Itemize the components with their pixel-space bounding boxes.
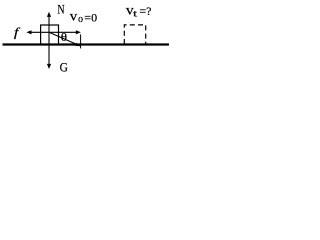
arrowhead diagonal (down-right): [75, 43, 81, 47]
svg-text:θ: θ: [61, 31, 67, 44]
arrowhead f (left): [26, 30, 31, 34]
ground line: [3, 43, 170, 45]
wire: vertical force line through block (N up / G down): [48, 16, 50, 64]
arrowhead G (down): [47, 64, 51, 69]
svg-text:G: G: [60, 60, 68, 74]
block (square on ground): [41, 25, 59, 44]
svg-text:=?: =?: [139, 4, 151, 18]
svg-text:N: N: [57, 4, 64, 17]
svg-text:v: v: [70, 9, 78, 24]
svg-text:t: t: [133, 8, 138, 18]
svg-text:=0: =0: [84, 10, 97, 24]
arrowhead horizontal component (right): [76, 30, 81, 34]
diagonal force F at angle theta below horizontal: [49, 32, 76, 44]
arrowhead N (up): [47, 12, 51, 17]
wire: horizontal force line through block (f left / F component right): [31, 31, 76, 33]
dashed box (block position at time t): [124, 25, 145, 44]
svg-text:f: f: [14, 26, 21, 40]
svg-text:0: 0: [78, 15, 84, 24]
vertical component tick closing the triangle: [80, 34, 82, 48]
